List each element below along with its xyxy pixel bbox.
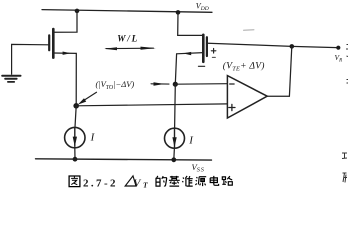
op-amp plus mark <box>229 104 235 110</box>
svg-text:V: V <box>134 177 142 189</box>
current source I2 arrow (down) <box>174 129 176 147</box>
transistor M1 channel <box>52 29 55 58</box>
caption: 的 (hand drawn) <box>156 176 167 186</box>
caption: 基 (hand drawn) <box>169 176 180 186</box>
node: I1-VSS dot <box>73 157 78 162</box>
wire: M2 gate feedback line to VR <box>208 43 337 47</box>
wire: I2 to VSS rail <box>173 148 176 160</box>
transistor M2 channel <box>202 35 205 62</box>
VDD rail <box>42 10 212 13</box>
wire: M1 gate lead <box>12 44 49 74</box>
op-amp U1 triangle <box>227 76 267 118</box>
wire: M1 source to VDD <box>53 11 77 32</box>
svg-text:2.7-2: 2.7-2 <box>83 178 118 190</box>
VSS rail <box>36 159 212 160</box>
W/L dimension arrows <box>106 47 154 49</box>
node: I2-VSS dot <box>171 157 176 162</box>
transistor M1 gate bar <box>48 35 50 50</box>
svg-text:VDD: VDD <box>196 2 209 12</box>
svg-text:VR: VR <box>335 53 343 63</box>
label arrow to node B <box>151 83 169 85</box>
node: M1 source junction dot <box>75 9 80 14</box>
wire: M2 drain lead <box>175 53 203 85</box>
node: feedback junction dot <box>290 44 295 49</box>
caption: 路 (hand drawn) <box>222 176 232 185</box>
wire: op-amp output <box>267 46 292 96</box>
wire: node A to op-amp non-inverting input <box>76 104 227 106</box>
svg-text:I: I <box>90 131 96 143</box>
svg-text:VSS: VSS <box>192 162 205 174</box>
stray mark top <box>244 29 255 31</box>
node: VR terminal dot <box>336 46 340 50</box>
wire: I1 to VSS rail <box>74 148 76 159</box>
arrow on M2 drain (points left) <box>183 52 191 55</box>
ground <box>2 76 20 82</box>
caption: 源 (hand drawn) <box>195 177 206 186</box>
caption: 电 (hand drawn) <box>210 176 218 185</box>
wire: M1 drain lead <box>53 53 76 106</box>
wire: node A to current source I1 <box>75 106 76 127</box>
node A: M1 drain node dot <box>73 103 79 109</box>
wire: node B to op-amp inverting input <box>175 83 227 86</box>
polarity plus near M2 gate <box>211 49 216 54</box>
current source I2 circle <box>165 128 185 148</box>
label arrow to node A <box>83 92 97 101</box>
caption: 图 (hand drawn) <box>69 176 80 187</box>
current source I1 circle <box>65 127 85 147</box>
op-amp minus mark <box>230 83 234 85</box>
node: M2 source junction dot <box>176 10 181 15</box>
caption: delta V T <box>125 176 136 186</box>
svg-text:I: I <box>188 134 194 146</box>
arrow on M1 drain (points right) <box>63 52 71 55</box>
current source I1 arrow (down) <box>74 129 76 147</box>
svg-text:T: T <box>143 180 148 189</box>
caption: 准 (hand drawn) <box>182 176 192 186</box>
svg-text:(|VTO|−ΔV): (|VTO|−ΔV) <box>96 79 135 91</box>
wire: node B to current source I2 <box>174 84 177 128</box>
svg-text:W / L: W / L <box>117 33 137 43</box>
svg-text:(VTE+ ΔV): (VTE+ ΔV) <box>223 61 265 73</box>
transistor M2 gate bar <box>206 37 208 56</box>
node B: M2 drain node dot <box>173 82 178 87</box>
page bleed marks right edge <box>342 45 348 183</box>
polarity minus below M2 <box>198 65 204 67</box>
wire: VDD dot down to M2 source lead <box>178 12 204 35</box>
